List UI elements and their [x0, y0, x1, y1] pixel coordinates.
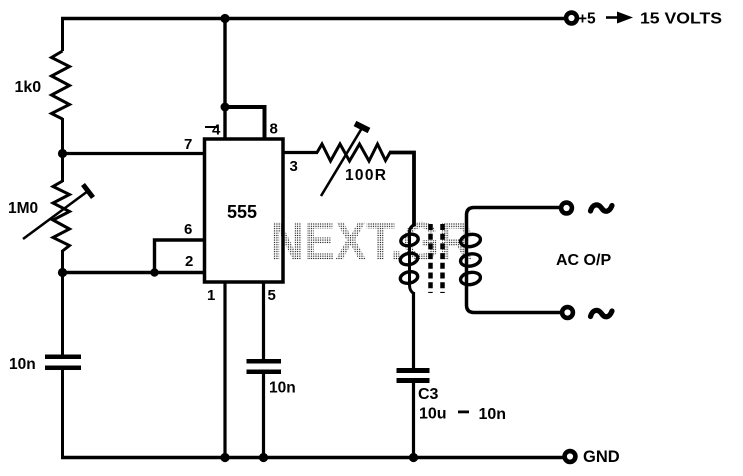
resistor 1k0 — [52, 51, 70, 119]
capacitor 10n center plates — [247, 359, 282, 374]
svg-text:5: 5 — [268, 287, 276, 304]
wire transformer primary to C3 — [412, 292, 415, 369]
svg-text:8: 8 — [270, 121, 278, 138]
svg-text:4: 4 — [212, 122, 221, 139]
junction dot C3/ground rail — [409, 453, 418, 462]
junction dot pin2/pin6 — [150, 268, 158, 276]
wire pin 1 to ground — [223, 281, 226, 458]
wire left rail between 1M0 and node B — [61, 250, 64, 274]
resistor 100R arrow — [321, 128, 362, 196]
node A junction dot (rail / pin7) — [58, 149, 67, 158]
svg-text:1: 1 — [207, 287, 215, 304]
wire left rail between node B and capacitor — [61, 273, 64, 356]
terminal +5 ring — [566, 13, 577, 24]
svg-text:6: 6 — [184, 221, 192, 238]
transformer T1 secondary loop 3 — [460, 271, 482, 286]
svg-text:GND: GND — [583, 448, 620, 466]
svg-text:555: 555 — [227, 202, 257, 222]
wire C3 to ground — [412, 382, 415, 458]
op IC 555 box U1 — [205, 139, 284, 282]
svg-text:7: 7 — [184, 136, 192, 153]
svg-text:1k0: 1k0 — [15, 79, 42, 96]
svg-text:AC O/P: AC O/P — [556, 252, 611, 269]
terminal AC output top ring — [561, 203, 572, 214]
wire pin 3 lead — [283, 151, 318, 154]
transformer T1 primary loop 1 — [400, 233, 420, 248]
node B junction dot (rail / pin2 wire) — [58, 268, 67, 277]
svg-text:10n: 10n — [9, 356, 36, 373]
wire left rail between 1k0 and node A — [61, 118, 64, 155]
svg-text:15 VOLTS: 15 VOLTS — [640, 11, 722, 28]
wire pin 2 net — [63, 271, 207, 274]
label pin 4 overbar — [205, 126, 217, 128]
wire pin 6 loop — [155, 240, 207, 273]
terminal AC output bottom ring — [562, 307, 573, 318]
potentiometer 1M0 arrow — [23, 191, 88, 239]
capacitor 10n left plates — [45, 355, 81, 371]
wire 100R to transformer corner — [389, 153, 414, 227]
svg-text:3: 3 — [290, 158, 298, 175]
tilde symbol bottom — [591, 310, 613, 316]
svg-text:NEXT.GR: NEXT.GR — [270, 212, 473, 272]
junction dot pin1/ground rail — [220, 453, 229, 462]
transformer T1 primary winding line — [410, 225, 414, 294]
transformer T1 primary loop 3 — [399, 270, 419, 285]
resistor 100R zigzag — [317, 144, 390, 161]
terminal GND ring — [565, 451, 576, 462]
wire pin 7 — [63, 152, 207, 155]
svg-text:10n: 10n — [269, 380, 296, 397]
wire left rail between node A and 1M0 — [61, 154, 64, 183]
wire left rail top lead — [61, 17, 64, 51]
wire center capacitor to ground — [262, 373, 265, 458]
svg-text:1M0: 1M0 — [8, 200, 38, 217]
svg-text:C3: C3 — [418, 386, 439, 403]
wire bottom ground rail — [61, 456, 563, 459]
transformer T1 core dashed line 1 — [428, 224, 433, 293]
svg-text:10n: 10n — [479, 406, 507, 423]
potentiometer 1M0 zigzag — [53, 181, 70, 251]
wire pin 8 loop — [225, 107, 265, 139]
potentiometer 1M0 arrow tab — [83, 185, 93, 198]
transformer T1 secondary winding with leads — [467, 208, 561, 313]
junction dot top rail — [220, 14, 229, 23]
svg-text:100R: 100R — [345, 167, 386, 184]
wire top +5 rail — [61, 17, 565, 20]
wire Vcc drop to pin 4 — [223, 19, 226, 140]
tilde symbol top — [591, 205, 613, 211]
svg-text:10u: 10u — [419, 406, 447, 423]
wire pin 5 to capacitor — [262, 281, 265, 360]
junction dot center cap/ground rail — [259, 453, 268, 462]
svg-text:2: 2 — [185, 253, 193, 270]
transformer T1 core dashed line 2 — [440, 224, 445, 293]
wire left rail below capacitor — [61, 369, 64, 459]
arrow to 15 VOLTS — [606, 12, 633, 24]
transformer T1 primary loop 2 — [399, 252, 419, 267]
svg-text:+5: +5 — [578, 11, 596, 28]
transformer T1 secondary loop 2 — [460, 252, 482, 267]
resistor 100R arrow tab — [355, 124, 369, 131]
junction dot pin4/pin8 — [221, 103, 230, 112]
capacitor C3 plates — [397, 368, 430, 383]
label dash between 10u and 10n — [458, 411, 469, 414]
transformer T1 secondary loop 1 — [460, 233, 482, 248]
